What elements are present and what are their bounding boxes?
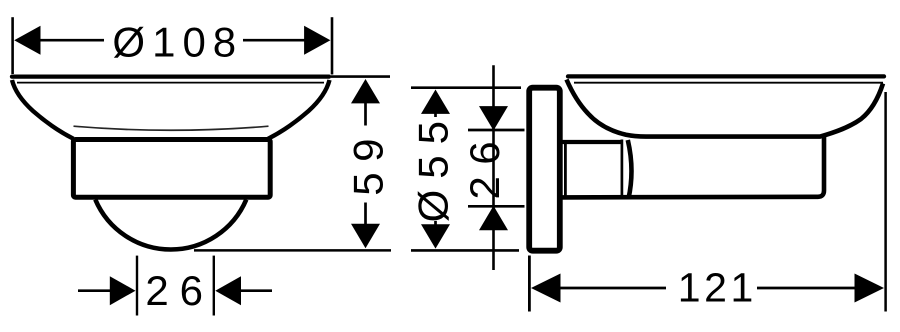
dim Ø108: left arrowhead <box>14 26 40 55</box>
dim Ø55: dimension line upper segment <box>434 110 437 117</box>
front view: holder ring lower half-circle <box>95 200 246 250</box>
dim 59: up arrowhead <box>351 79 380 103</box>
dim Ø108: dimension line right segment <box>243 39 305 42</box>
side view: arm top line <box>558 140 621 144</box>
dim 121: left arrowhead <box>531 274 561 303</box>
dim 59: down arrowhead <box>351 224 380 248</box>
dim 121: right arrowhead <box>855 274 885 303</box>
dim Ø55: up arrowhead <box>421 90 450 114</box>
dim Ø108: right arrowhead <box>304 26 330 55</box>
dim 26 bottom: right arrowhead (points left) <box>215 276 241 305</box>
dim 26 bottom: right tail line <box>240 289 272 292</box>
dim 121: dimension line right segment <box>757 287 856 290</box>
dim 59: dimension line lower segment <box>364 203 367 228</box>
dim Ø55: dimension line lower segment <box>434 221 437 228</box>
dim 26 bottom: left arrowhead (points right) <box>110 276 136 305</box>
dim 121: right extension line <box>884 92 887 312</box>
svg-text:Ø55: Ø55 <box>410 110 457 222</box>
side view: arm bottom line and right end <box>558 137 824 197</box>
dim Ø55: bottom extension line <box>411 249 519 252</box>
svg-text:26: 26 <box>461 130 508 200</box>
front view: soap dish rim <box>12 74 329 78</box>
dim 26 bottom: left tail line <box>78 289 111 292</box>
dim 59: top extension line <box>331 75 390 78</box>
side view: wall plate <box>529 88 560 251</box>
dim Ø108: left extension line <box>11 17 14 74</box>
dim Ø108: right extension line <box>331 17 334 74</box>
dim 121: left extension line <box>528 256 531 312</box>
dim Ø55: down arrowhead <box>421 224 450 248</box>
dim Ø108: dimension line left segment <box>39 39 104 42</box>
front view: bowl left outer curve <box>12 80 74 139</box>
front view: holder ring band rectangle <box>73 140 270 198</box>
dim 26 side: down arrowhead above <box>479 106 508 130</box>
dim 26 bottom: left extension line <box>136 256 138 316</box>
dim 59: dimension line upper segment <box>364 100 367 126</box>
svg-text:Ø108: Ø108 <box>112 18 243 65</box>
dim 26 bottom: right extension line <box>213 256 215 316</box>
side view: collar edge line <box>564 141 567 198</box>
side view: ring right curve <box>628 140 632 199</box>
front view: bottom baseline extension <box>194 249 391 252</box>
dim 26 side: bottom extension line <box>468 205 525 208</box>
dim 26 side: vertical dimension line <box>492 65 495 270</box>
dim Ø55: top extension line <box>411 86 521 89</box>
svg-text:26: 26 <box>145 267 214 314</box>
front view: glass bottom thin arc <box>74 126 269 130</box>
dim 26 side: top extension line <box>468 129 525 132</box>
svg-text:59: 59 <box>344 128 391 196</box>
side view: dish rim top line <box>568 74 884 78</box>
side view: dish bowl outline <box>567 80 884 137</box>
dim 121: dimension line left segment <box>559 287 666 290</box>
svg-text:121: 121 <box>678 264 757 310</box>
front view: bowl right outer curve <box>268 80 330 139</box>
side view: dish rim inner thin line <box>574 82 883 84</box>
dim 26 side: up arrowhead below <box>479 206 508 230</box>
front view: dish rim inner thin line <box>17 82 324 84</box>
side view: ring left edge <box>621 140 624 199</box>
